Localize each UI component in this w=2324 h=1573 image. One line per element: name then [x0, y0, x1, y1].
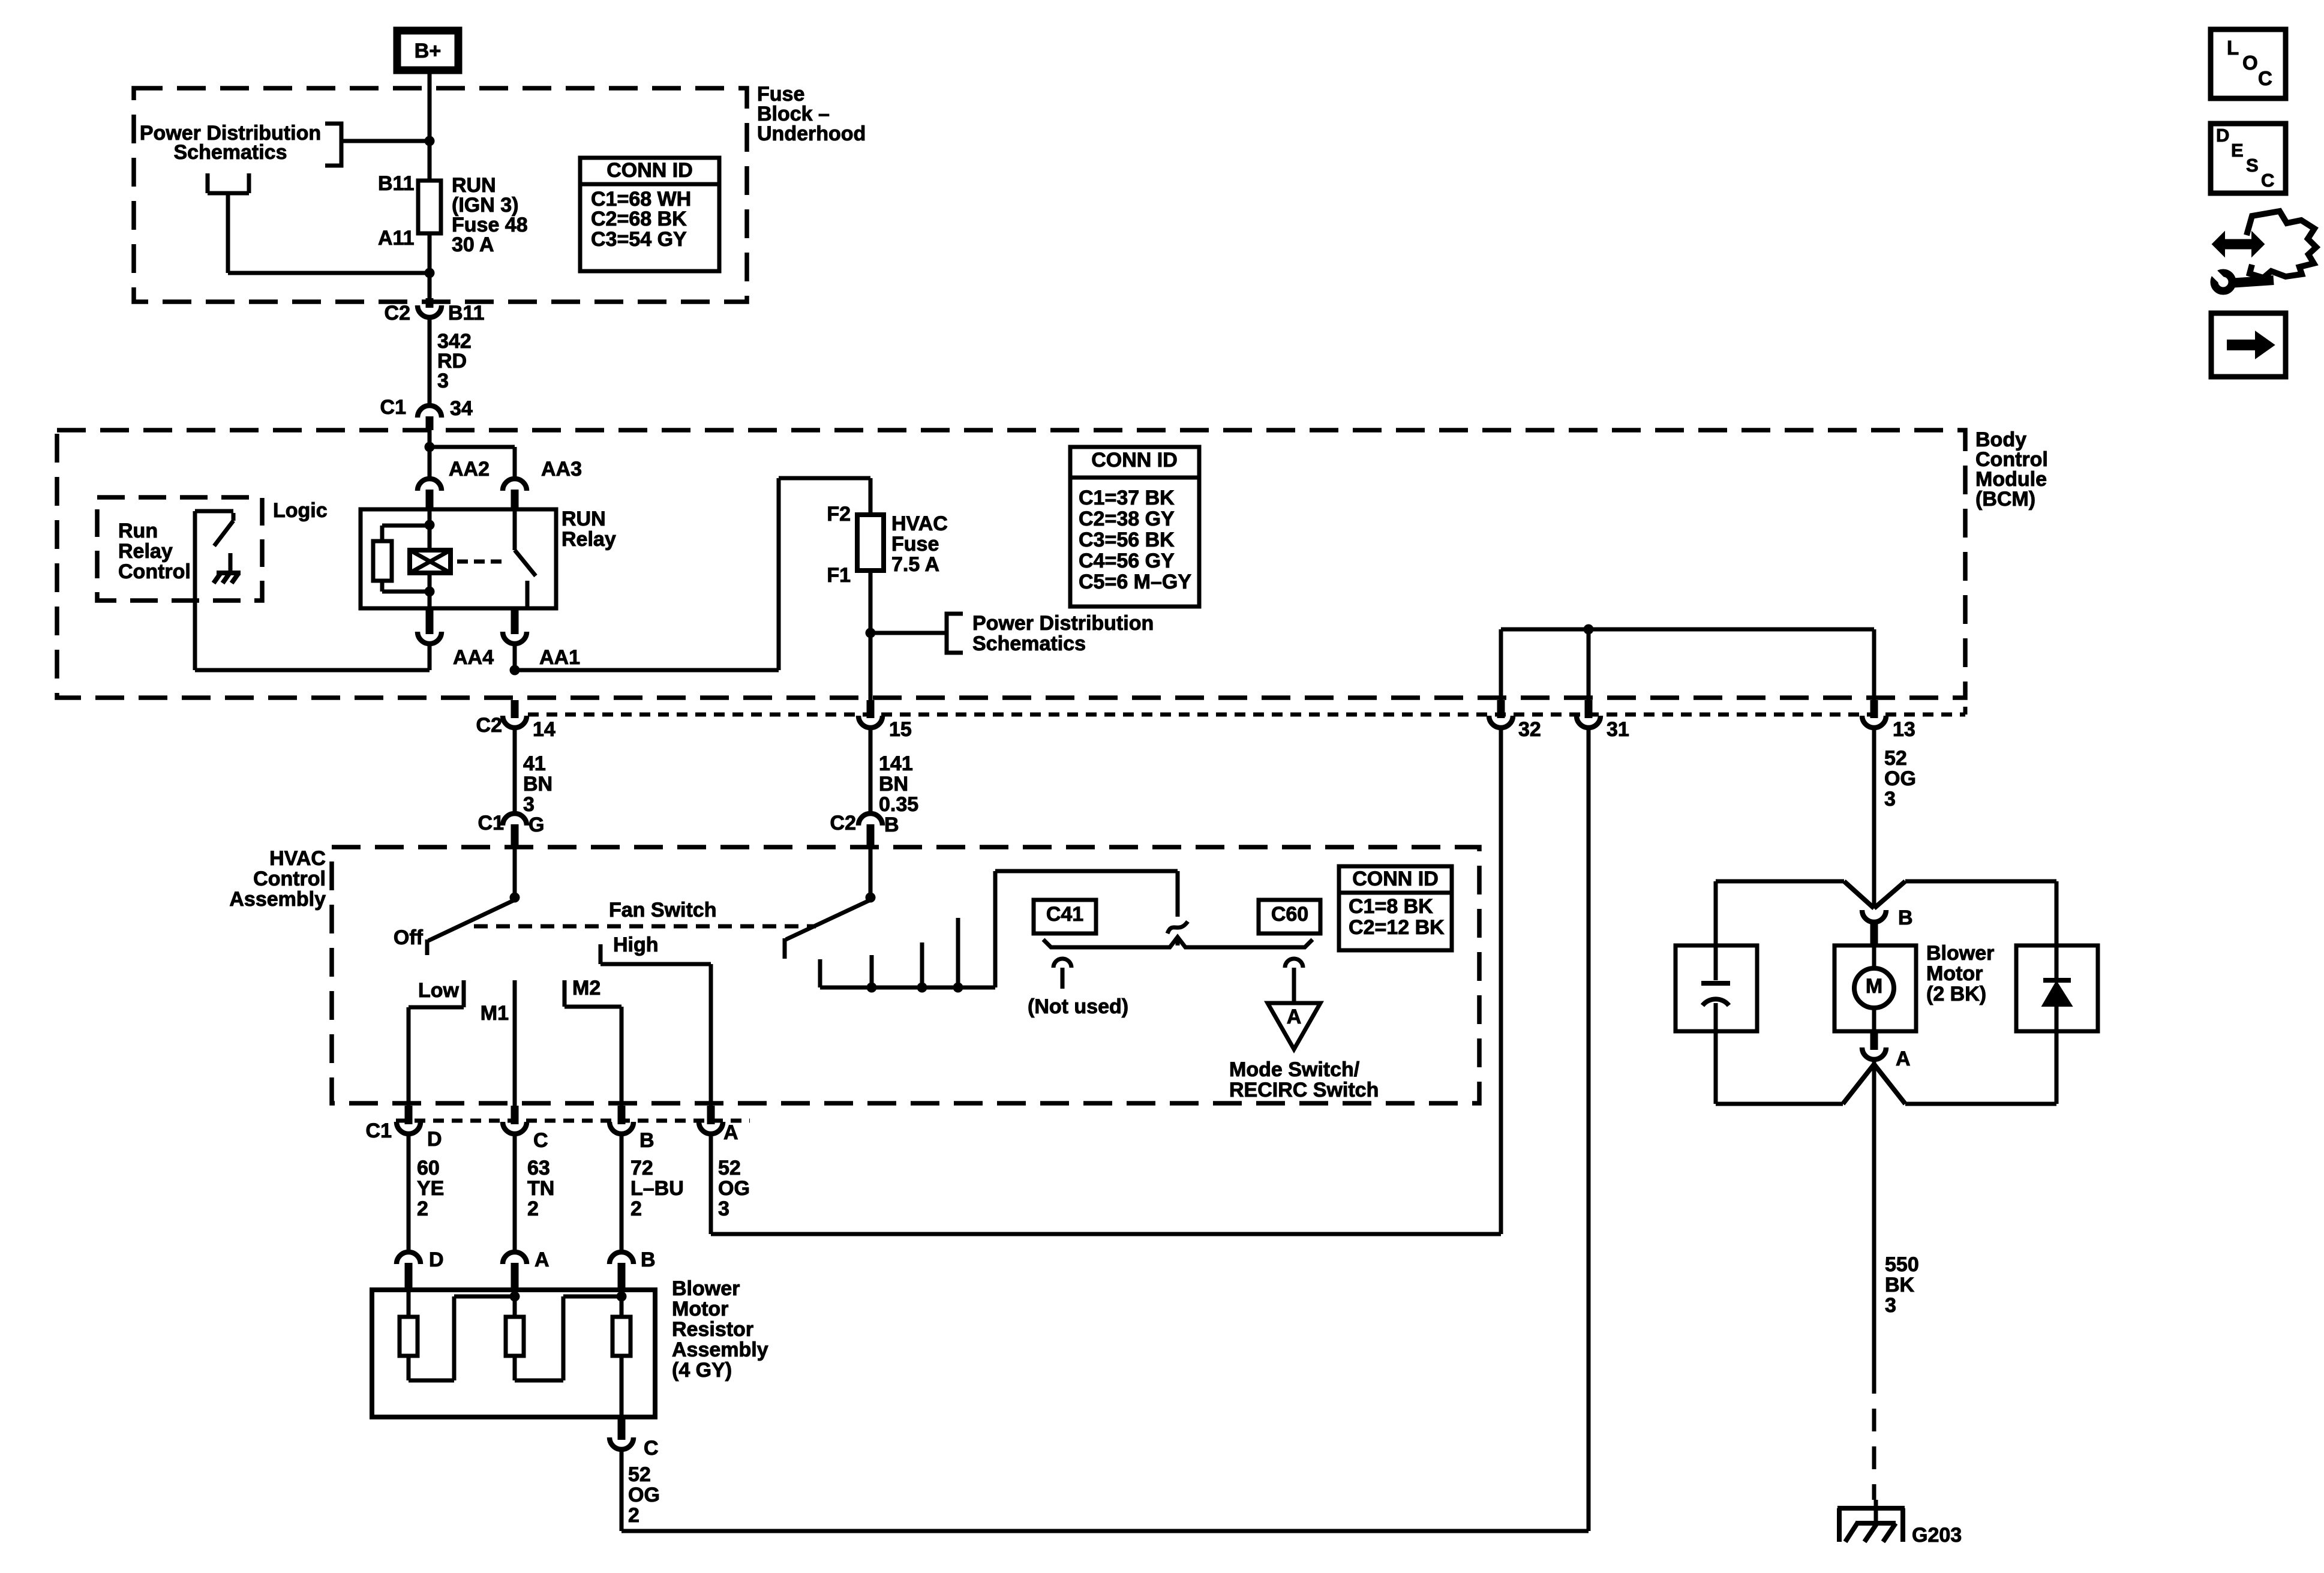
svg-text:C5=6 M–GY: C5=6 M–GY	[1079, 571, 1191, 593]
svg-text:C2: C2	[385, 302, 410, 325]
svg-text:CONN ID: CONN ID	[1091, 449, 1178, 472]
svg-text:Run: Run	[118, 520, 158, 542]
svg-text:G203: G203	[1912, 1524, 1962, 1547]
svg-text:C1=37 BK: C1=37 BK	[1079, 487, 1175, 509]
svg-text:52: 52	[1884, 747, 1907, 770]
svg-text:BN: BN	[523, 773, 553, 795]
svg-text:2: 2	[417, 1197, 428, 1220]
svg-text:B+: B+	[415, 40, 441, 62]
svg-text:D: D	[427, 1128, 442, 1151]
svg-text:OG: OG	[628, 1484, 660, 1506]
svg-text:Blower: Blower	[1926, 942, 1994, 965]
svg-text:2: 2	[630, 1197, 642, 1220]
svg-text:Logic: Logic	[273, 499, 328, 522]
svg-text:HVAC: HVAC	[891, 512, 948, 535]
svg-text:B: B	[1898, 906, 1913, 929]
svg-text:C2: C2	[476, 714, 502, 737]
svg-text:A11: A11	[378, 227, 415, 250]
svg-text:550: 550	[1885, 1253, 1919, 1276]
svg-text:B: B	[639, 1129, 654, 1152]
svg-text:Schematics: Schematics	[972, 632, 1086, 655]
svg-text:B: B	[641, 1248, 656, 1271]
svg-text:D: D	[429, 1248, 444, 1271]
svg-text:A: A	[1287, 1005, 1302, 1028]
svg-text:C2=38 GY: C2=38 GY	[1079, 508, 1175, 530]
svg-text:F2: F2	[827, 503, 851, 526]
svg-text:52: 52	[628, 1463, 651, 1486]
svg-text:C60: C60	[1271, 903, 1308, 926]
svg-text:13: 13	[1893, 718, 1915, 741]
svg-text:B11: B11	[448, 302, 485, 325]
svg-text:Power Distribution: Power Distribution	[972, 612, 1154, 635]
svg-text:Relay: Relay	[562, 528, 616, 551]
svg-text:3: 3	[718, 1197, 729, 1220]
svg-text:3: 3	[437, 370, 449, 392]
svg-text:AA3: AA3	[541, 458, 582, 481]
svg-text:B: B	[884, 813, 899, 836]
svg-text:C1: C1	[380, 396, 406, 419]
svg-text:C3=56 BK: C3=56 BK	[1079, 529, 1175, 551]
svg-text:Relay: Relay	[118, 540, 173, 563]
svg-text:S: S	[2246, 155, 2259, 176]
svg-text:Control: Control	[118, 560, 191, 583]
svg-text:B11: B11	[378, 172, 415, 195]
svg-text:Assembly: Assembly	[229, 888, 326, 911]
svg-text:(2 BK): (2 BK)	[1926, 983, 1986, 1005]
svg-text:A: A	[723, 1121, 738, 1144]
svg-text:3: 3	[1885, 1294, 1896, 1317]
svg-text:72: 72	[630, 1157, 653, 1179]
svg-text:YE: YE	[417, 1177, 444, 1200]
svg-text:(BCM): (BCM)	[1975, 488, 2035, 511]
svg-text:C2=12 BK: C2=12 BK	[1349, 916, 1445, 939]
svg-text:M: M	[1866, 975, 1882, 998]
svg-text:CONN ID: CONN ID	[1352, 867, 1439, 890]
svg-text:OG: OG	[1884, 767, 1916, 790]
svg-text:O: O	[2242, 52, 2258, 74]
svg-text:Fuse: Fuse	[891, 533, 939, 556]
svg-text:HVAC: HVAC	[269, 847, 326, 870]
svg-text:C3=54 GY: C3=54 GY	[591, 228, 687, 251]
svg-text:C41: C41	[1046, 903, 1083, 926]
svg-text:High: High	[613, 933, 659, 956]
svg-text:C2: C2	[830, 812, 856, 834]
svg-text:G: G	[529, 813, 544, 836]
svg-text:AA1: AA1	[539, 646, 580, 669]
svg-text:C1: C1	[366, 1119, 392, 1142]
svg-text:2: 2	[527, 1197, 539, 1220]
svg-text:Underhood: Underhood	[757, 122, 866, 145]
svg-text:3: 3	[523, 793, 535, 816]
svg-text:Off: Off	[394, 926, 424, 949]
svg-text:141: 141	[879, 752, 913, 775]
svg-text:C: C	[2261, 170, 2274, 191]
svg-text:Schematics: Schematics	[174, 141, 287, 164]
svg-text:34: 34	[450, 397, 473, 420]
svg-text:41: 41	[523, 752, 546, 775]
svg-text:Low: Low	[418, 979, 460, 1002]
svg-text:Fan Switch: Fan Switch	[609, 899, 716, 921]
svg-text:(Not used): (Not used)	[1028, 995, 1128, 1018]
svg-text:RUN: RUN	[562, 508, 606, 530]
svg-text:A: A	[1896, 1047, 1911, 1070]
svg-text:60: 60	[417, 1157, 440, 1179]
svg-text:D: D	[2216, 125, 2229, 146]
svg-text:30 A: 30 A	[452, 233, 494, 256]
svg-text:C1=8 BK: C1=8 BK	[1349, 895, 1433, 918]
svg-text:63: 63	[527, 1157, 550, 1179]
svg-text:31: 31	[1607, 718, 1629, 741]
svg-text:C2=68 BK: C2=68 BK	[591, 208, 687, 230]
svg-text:AA2: AA2	[449, 458, 490, 481]
svg-text:32: 32	[1518, 718, 1541, 741]
svg-text:A: A	[535, 1248, 550, 1271]
svg-text:Motor: Motor	[672, 1298, 728, 1320]
svg-text:CONN ID: CONN ID	[606, 159, 693, 182]
svg-text:Blower: Blower	[672, 1277, 740, 1300]
svg-text:L: L	[2227, 37, 2239, 59]
svg-text:C: C	[2258, 67, 2272, 89]
svg-text:0.35: 0.35	[879, 793, 918, 816]
svg-text:Motor: Motor	[1926, 962, 1983, 985]
svg-text:BN: BN	[879, 773, 908, 795]
svg-text:Control: Control	[253, 867, 326, 890]
svg-text:14: 14	[533, 718, 556, 741]
svg-text:C: C	[533, 1129, 548, 1152]
svg-text:(4 GY): (4 GY)	[672, 1359, 732, 1382]
svg-text:RECIRC Switch: RECIRC Switch	[1229, 1079, 1379, 1101]
svg-text:M2: M2	[572, 977, 600, 999]
svg-text:7.5 A: 7.5 A	[891, 553, 939, 576]
svg-text:3: 3	[1884, 788, 1896, 810]
svg-text:52: 52	[718, 1157, 741, 1179]
svg-text:M1: M1	[481, 1002, 509, 1025]
svg-text:15: 15	[889, 718, 912, 741]
svg-text:Assembly: Assembly	[672, 1338, 768, 1361]
svg-text:C4=56 GY: C4=56 GY	[1079, 550, 1175, 572]
svg-text:OG: OG	[718, 1177, 750, 1200]
svg-text:Mode Switch/: Mode Switch/	[1229, 1058, 1360, 1081]
svg-text:C: C	[644, 1437, 659, 1460]
svg-text:AA4: AA4	[453, 646, 494, 669]
svg-text:Resistor: Resistor	[672, 1318, 753, 1341]
svg-text:L–BU: L–BU	[630, 1177, 684, 1200]
svg-text:E: E	[2231, 140, 2244, 161]
svg-text:F1: F1	[827, 564, 851, 587]
svg-text:TN: TN	[527, 1177, 554, 1200]
svg-text:C1: C1	[478, 812, 504, 834]
svg-text:2: 2	[628, 1504, 639, 1527]
svg-text:BK: BK	[1885, 1274, 1915, 1296]
